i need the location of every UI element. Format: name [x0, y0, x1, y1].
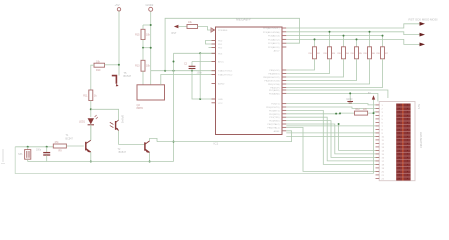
wire pin loop2: [200, 53, 215, 99]
svg-text:GND: GND: [218, 99, 223, 101]
svg-text:17: 17: [382, 161, 385, 163]
svg-text:1k: 1k: [94, 95, 97, 98]
svg-text:RST: RST: [172, 32, 177, 35]
svg-text:PC2(ADC2): PC2(ADC2): [268, 38, 280, 41]
wire nest4: [286, 110, 379, 164]
svg-text:BPW40: BPW40: [120, 115, 123, 124]
svg-text:15: 15: [382, 154, 385, 156]
crystal Q2: [137, 85, 165, 110]
wire T1 collector: [90, 125, 92, 140]
svg-text:R6: R6: [372, 53, 376, 55]
svg-text:R5: R5: [359, 53, 363, 55]
arrow bus3: [420, 43, 426, 47]
svg-text:PB6(XTAL1): PB6(XTAL1): [267, 126, 279, 129]
wire R5 to pin: [286, 59, 356, 81]
svg-text:VCC: VCC: [218, 103, 223, 105]
wire R11 bottom: [90, 101, 92, 118]
wire R6 to pin: [286, 59, 369, 84]
svg-text:PD3: PD3: [218, 53, 223, 55]
svg-text:R9: R9: [59, 150, 63, 153]
wire crosslink y47.7: [143, 47, 151, 49]
wire bus2: [286, 32, 419, 35]
svg-text:PD1(TXD): PD1(TXD): [269, 117, 279, 119]
svg-text:PB3(MOSI/OC2): PB3(MOSI/OC2): [263, 77, 280, 79]
svg-text:PD0: PD0: [218, 41, 223, 43]
wire XTAL1: [151, 70, 216, 72]
svg-text:AVCC: AVCC: [218, 61, 224, 64]
svg-text:100n: 100n: [197, 72, 203, 75]
svg-text:GND2: GND2: [146, 3, 154, 7]
wire bottom rail: [15, 147, 373, 174]
svg-text:11: 11: [382, 140, 385, 142]
capacitor C5: [36, 147, 50, 162]
svg-text:16: 16: [382, 158, 385, 160]
svg-text:R15: R15: [135, 34, 140, 37]
wire T2 collector: [150, 138, 157, 141]
wire nest3: [286, 117, 379, 161]
wire R12 feed: [286, 112, 354, 115]
arrow bus1: [420, 22, 426, 26]
svg-text:5V: 5V: [368, 93, 371, 95]
svg-text:PD6(AIN0): PD6(AIN0): [269, 92, 280, 95]
wire R1 to pin1: [198, 27, 212, 31]
svg-text:1: 1: [382, 105, 384, 107]
svg-text:R12: R12: [356, 109, 361, 111]
svg-text:10k: 10k: [146, 34, 151, 37]
svg-text:7: 7: [382, 126, 384, 128]
wire row7: [286, 125, 379, 127]
svg-text:MEGA8-P: MEGA8-P: [236, 18, 252, 22]
svg-text:IC1: IC1: [214, 142, 219, 146]
wire T3 emitter: [119, 131, 145, 145]
svg-text:PD7(AIN1): PD7(AIN1): [269, 89, 280, 92]
LED LED1: [79, 115, 98, 125]
arrow bus2: [420, 33, 426, 37]
svg-text:220: 220: [337, 53, 341, 55]
svg-text:RST SCK MISO MOSI: RST SCK MISO MOSI: [409, 18, 438, 22]
svg-text:PB1(OC1A): PB1(OC1A): [268, 83, 280, 86]
svg-text:R3: R3: [332, 53, 336, 55]
svg-text:PD2(INT0): PD2(INT0): [269, 114, 280, 116]
resistor R12: [355, 109, 368, 115]
svg-text:R4: R4: [346, 53, 350, 55]
wire bus4: [286, 39, 419, 44]
wire row20: [286, 127, 379, 171]
svg-text:3: 3: [382, 112, 384, 114]
svg-text:PC1(ADC1): PC1(ADC1): [268, 42, 280, 45]
svg-text:BC547: BC547: [119, 151, 127, 154]
transistor T1: [66, 134, 91, 152]
svg-text:4: 4: [382, 116, 384, 118]
svg-text:27k: 27k: [55, 141, 60, 144]
svg-text:PD1: PD1: [218, 44, 223, 46]
svg-text:BC547: BC547: [66, 137, 74, 140]
wire row9: [286, 132, 379, 134]
wire R2 to pin: [286, 59, 314, 70]
resistor R15: [135, 29, 151, 39]
connector SV1: [376, 102, 423, 181]
buzzer SP1: [18, 147, 31, 162]
svg-text:C2: C2: [184, 63, 188, 66]
wire long vertical: [173, 53, 175, 161]
svg-text:PD5(T1): PD5(T1): [271, 104, 280, 106]
power +5V P1: [115, 3, 121, 11]
wire XTAL2: [161, 75, 216, 85]
svg-text:ADC7: ADC7: [274, 50, 281, 53]
transistor T5: [112, 72, 132, 87]
wire R10 left: [91, 65, 94, 90]
svg-text:LED1: LED1: [79, 121, 86, 124]
svg-text:8: 8: [382, 130, 384, 132]
svg-text:PB7(XTAL2): PB7(XTAL2): [267, 123, 279, 126]
svg-text:R10: R10: [96, 69, 101, 72]
wire left pin a: [206, 41, 216, 45]
IC1 left pin stubs: [212, 29, 216, 31]
wire R15 bottom: [142, 40, 144, 48]
svg-text:19: 19: [382, 168, 385, 170]
svg-text:PD2: PD2: [218, 48, 223, 50]
svg-text:6: 6: [382, 123, 384, 125]
wire R12 out: [368, 112, 380, 113]
svg-text:12: 12: [382, 144, 385, 146]
wire top net: [165, 18, 299, 70]
wire T2 collector net: [157, 131, 292, 142]
wire R10 right: [105, 64, 119, 66]
wire T2 emitter: [149, 152, 151, 161]
wire LED1 down: [90, 125, 92, 140]
capacitor C2: [184, 62, 203, 75]
svg-text:10k: 10k: [188, 21, 193, 24]
wire supply row: [15, 146, 53, 148]
svg-text:100u: 100u: [36, 150, 42, 152]
wire GND2 down: [150, 12, 152, 85]
wire row1: [286, 104, 379, 105]
resistor R11: [83, 90, 97, 101]
wire gnd row mid: [28, 161, 174, 163]
svg-text:2: 2: [382, 109, 384, 111]
wire +5V down: [118, 11, 120, 75]
svg-text:SP1: SP1: [18, 154, 23, 156]
svg-text:PB4(MISO): PB4(MISO): [268, 74, 279, 76]
svg-text:220: 220: [363, 53, 367, 55]
arrow +5V up: [368, 93, 375, 174]
svg-text:10k: 10k: [146, 65, 151, 68]
wire C2 top to IC: [192, 61, 216, 63]
svg-text:PC5(ADC5/SCL): PC5(ADC5/SCL): [263, 27, 280, 30]
wire gnd pin loop: [192, 71, 216, 99]
svg-text:PB2(SS/OC1B): PB2(SS/OC1B): [264, 81, 279, 83]
svg-text:R13: R13: [135, 65, 140, 68]
svg-text:13: 13: [382, 147, 385, 149]
svg-text:PD4(XCK/T0): PD4(XCK/T0): [266, 107, 280, 109]
wire nest1: [286, 124, 379, 154]
wire rowtopA: [286, 90, 388, 98]
svg-text:AGND: AGND: [218, 83, 225, 86]
resistor R2: [308, 38, 320, 58]
svg-text:PC6/RES: PC6/RES: [218, 30, 228, 32]
svg-text:220: 220: [323, 53, 327, 55]
wire R15 top link: [143, 24, 151, 26]
svg-text:5: 5: [382, 119, 384, 121]
wire nest0: [339, 124, 380, 150]
wire left pin b: [209, 47, 216, 49]
resistor R7: [376, 35, 388, 59]
svg-text:220: 220: [376, 53, 380, 55]
svg-text:8MHz: 8MHz: [137, 107, 144, 110]
resistor R9: [53, 141, 66, 153]
svg-text:10: 10: [382, 137, 385, 139]
svg-text:GND: GND: [346, 97, 352, 101]
wire R3 to pin: [286, 59, 329, 74]
svg-text:XTAL1/TOSC1: XTAL1/TOSC1: [218, 70, 233, 73]
svg-text:XTAL2/TOSC2: XTAL2/TOSC2: [218, 74, 233, 77]
svg-text:R7: R7: [385, 53, 389, 55]
svg-text:AREF: AREF: [274, 130, 280, 133]
resistor R1: [187, 21, 198, 29]
svg-text:220: 220: [350, 53, 354, 55]
svg-text:PD0(RXD): PD0(RXD): [269, 121, 280, 123]
transistor T2: [118, 141, 150, 154]
svg-text:BC547: BC547: [124, 75, 132, 78]
svg-text:R11: R11: [83, 95, 88, 98]
wire T1 emitter: [90, 152, 92, 162]
frame tick: [2, 149, 4, 162]
wire PD3 net: [174, 52, 216, 54]
wire to photo T3: [91, 109, 119, 120]
wire row2: [286, 107, 379, 108]
arrow RESET: [172, 25, 188, 35]
wire bus1: [286, 24, 419, 28]
IC1 right pin stubs: [282, 27, 286, 29]
wire nest2: [286, 121, 379, 158]
svg-text:SV1: SV1: [417, 104, 421, 110]
svg-text:20: 20: [382, 172, 385, 174]
wire R13 to Q2: [142, 71, 144, 85]
phototransistor T3: [110, 115, 124, 131]
svg-text:+5V: +5V: [115, 3, 120, 7]
wire row10: [286, 135, 379, 137]
resistor R13: [135, 48, 151, 71]
resistor R4: [337, 35, 349, 59]
wire R4 to pin: [286, 59, 343, 77]
ground GND sym: [346, 92, 353, 103]
svg-text:PB5(SCK): PB5(SCK): [269, 70, 279, 72]
svg-text:18: 18: [382, 165, 385, 167]
svg-text:LED-MATRIX: LED-MATRIX: [419, 132, 423, 148]
wire R7 to pin: [286, 59, 382, 88]
svg-text:14: 14: [382, 151, 385, 153]
wire R9 to T1: [66, 145, 83, 147]
svg-text:PC0(ADC0): PC0(ADC0): [268, 46, 280, 49]
svg-text:PC3(ADC3): PC3(ADC3): [268, 35, 280, 38]
svg-text:220: 220: [308, 53, 312, 55]
IC IC1 MEGA8-P box: [216, 27, 283, 135]
wire bus3: [286, 35, 382, 37]
resistor R5: [350, 38, 362, 58]
svg-text:21: 21: [382, 175, 385, 177]
resistor R6: [363, 31, 375, 59]
wire rowtopB: [286, 93, 378, 101]
power GND2 P2: [146, 3, 154, 11]
svg-text:PD3(INT1): PD3(INT1): [269, 110, 280, 112]
svg-text:9: 9: [382, 133, 384, 135]
resistor R3: [323, 31, 335, 59]
resistor R10: [94, 60, 105, 72]
svg-text:R2: R2: [317, 53, 321, 55]
svg-text:PC4(ADC4/SDA): PC4(ADC4/SDA): [263, 31, 280, 34]
